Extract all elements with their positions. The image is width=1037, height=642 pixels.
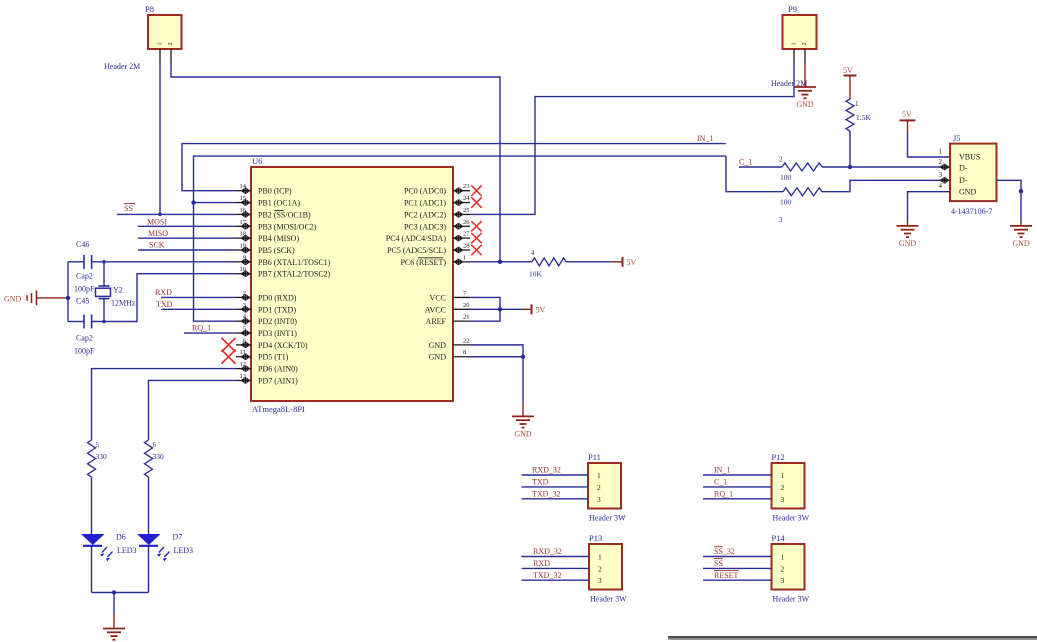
wire IN_1 to PB0: [182, 144, 726, 191]
wire net IN_1 to P12 pin 1: [703, 474, 772, 476]
resistor R4 10K: [532, 258, 566, 266]
svg-text:27: 27: [463, 231, 470, 238]
svg-text:PC2 (ADC2): PC2 (ADC2): [404, 210, 446, 219]
svg-text:4-1437106-7: 4-1437106-7: [951, 207, 992, 216]
svg-text:100: 100: [780, 198, 792, 207]
resistor R5 330: [88, 440, 96, 477]
wire J5 shield to ground: [997, 180, 1022, 222]
wire net TXD_32 to P11 pin 3: [522, 498, 589, 500]
wire LED D6 to gnd rail: [91, 546, 93, 593]
wire R1 down to D- net: [849, 131, 851, 167]
svg-text:GND: GND: [899, 239, 917, 248]
svg-text:17: 17: [240, 219, 247, 226]
svg-text:TXD_32: TXD_32: [532, 490, 560, 499]
U6 pin 12 PD6: [236, 368, 251, 370]
svg-text:Header 3W: Header 3W: [773, 595, 810, 604]
sheet border: [668, 636, 1037, 638]
connector P9: [783, 15, 817, 49]
J5 pin2 io glyph: [940, 164, 950, 169]
svg-text:RXD: RXD: [155, 288, 172, 297]
junction crystal gnd: [66, 296, 70, 300]
svg-text:IN_1: IN_1: [697, 134, 713, 143]
U6 pin 14 PB0: [236, 190, 251, 192]
U6 pin 9 PB6: [236, 261, 251, 263]
svg-text:100: 100: [780, 173, 792, 182]
svg-text:Cap2: Cap2: [76, 334, 93, 343]
wire net SS to PB2: [117, 213, 236, 215]
svg-text:5V: 5V: [843, 66, 853, 75]
connector P14 body: [772, 544, 805, 590]
svg-text:GND: GND: [429, 341, 447, 350]
wire VCC AREF tie: [470, 297, 500, 321]
svg-text:8: 8: [463, 349, 466, 356]
svg-text:5V: 5V: [536, 305, 546, 314]
wire net RXD_32 to P13 pin 1: [522, 556, 590, 558]
svg-text:C46: C46: [76, 240, 89, 249]
svg-text:RQ_1: RQ_1: [714, 490, 733, 499]
ground GND under U6: [512, 415, 534, 417]
U6 pin 21 AREF right: [453, 320, 470, 322]
svg-text:330: 330: [153, 452, 165, 461]
svg-text:GND: GND: [1012, 239, 1030, 248]
svg-text:SCK: SCK: [149, 241, 165, 250]
svg-text:12MHz: 12MHz: [111, 299, 136, 308]
svg-text:C45: C45: [76, 297, 89, 306]
svg-text:1.5K: 1.5K: [856, 113, 871, 122]
svg-text:20: 20: [463, 302, 470, 309]
wire R2 to J5 pin2: [822, 166, 950, 168]
svg-text:PB3 (MOSI/OC2): PB3 (MOSI/OC2): [258, 222, 317, 231]
svg-text:3: 3: [243, 302, 246, 309]
svg-text:5V: 5V: [902, 110, 912, 119]
svg-text:TXD: TXD: [532, 478, 549, 487]
junction on PC6 reset: [498, 260, 502, 264]
svg-text:1: 1: [598, 553, 602, 562]
no-connect X on pin 11 PD5: [222, 350, 236, 364]
svg-text:GND: GND: [959, 188, 977, 197]
svg-text:RXD_32: RXD_32: [533, 547, 562, 556]
svg-text:LED3: LED3: [117, 546, 137, 555]
svg-text:MISO: MISO: [148, 229, 168, 238]
svg-text:RQ_1: RQ_1: [192, 324, 211, 333]
svg-text:4: 4: [939, 182, 943, 190]
svg-text:P12: P12: [772, 452, 785, 462]
U6 pin 25 PC2 right: [453, 213, 470, 215]
junction D- net: [848, 165, 852, 169]
connector P8: [148, 15, 182, 49]
U6 pin 24 PC1 right: [453, 202, 470, 204]
svg-text:Header 3W: Header 3W: [589, 514, 626, 523]
resistor R1 1.5K: [846, 99, 854, 131]
wire net TXD to PD1: [161, 308, 236, 310]
wire R3 to J5 pin3: [822, 180, 950, 191]
wire PD7 to resistor R6: [149, 380, 237, 440]
resistor R3 100: [783, 188, 822, 196]
wire C46 to PB6 XTAL1: [92, 261, 236, 263]
op IC U6 ATmega8L body: [251, 167, 453, 401]
svg-text:3: 3: [781, 495, 785, 504]
U6 pin 20 AVCC right: [453, 308, 470, 310]
svg-text:TXD: TXD: [156, 300, 173, 309]
wire net RXD_32 to P11 pin 1: [522, 474, 589, 476]
ground GND under P9: [794, 86, 816, 88]
ground under LEDs: [103, 628, 125, 630]
svg-text:1: 1: [597, 471, 601, 480]
junction shield: [1019, 189, 1023, 193]
svg-text:2: 2: [802, 43, 808, 46]
svg-text:2: 2: [781, 564, 785, 573]
svg-text:1: 1: [463, 254, 466, 261]
svg-text:3: 3: [598, 576, 602, 585]
svg-text:3: 3: [781, 576, 785, 585]
svg-text:1: 1: [855, 100, 859, 108]
svg-text:PD3 (INT1): PD3 (INT1): [258, 329, 297, 338]
svg-text:D-: D-: [959, 176, 968, 185]
wire net SCK to PB5: [138, 249, 236, 251]
no-connect X on pin 27: [471, 233, 481, 243]
svg-text:PD4 (XCK/T0): PD4 (XCK/T0): [258, 341, 308, 350]
wire R4 to 5V: [566, 261, 612, 263]
svg-text:1: 1: [939, 148, 943, 156]
svg-text:330: 330: [96, 452, 108, 461]
U6 pin 5 PD3: [236, 332, 251, 334]
svg-text:16: 16: [240, 207, 247, 214]
junction AVCC: [498, 307, 502, 311]
U6 pin 7 VCC right: [453, 296, 470, 298]
wire net RQ_1 to PD3: [184, 332, 236, 334]
U6 pin 6 PD4: [236, 344, 251, 346]
svg-text:14: 14: [240, 183, 247, 190]
U6 pin 1 PC6 right: [453, 261, 470, 263]
no-connect X on pin 24: [471, 197, 481, 207]
svg-text:3: 3: [597, 495, 601, 504]
resistor R6 330: [145, 440, 153, 477]
svg-text:1: 1: [781, 471, 785, 480]
wire net SS_32 to P14 pin 1: [703, 556, 772, 558]
svg-text:SS: SS: [124, 204, 133, 213]
U6 pin 3 PD1: [236, 308, 251, 310]
wire down to earth: [113, 593, 115, 615]
wire LED ground rail: [92, 592, 149, 594]
svg-text:2: 2: [243, 290, 246, 297]
P8 pin 2 stub: [170, 49, 172, 63]
svg-text:AVCC: AVCC: [425, 305, 446, 314]
svg-text:PB6 (XTAL1/TOSC1): PB6 (XTAL1/TOSC1): [258, 258, 331, 267]
svg-text:D-: D-: [959, 163, 968, 172]
svg-text:9: 9: [243, 254, 246, 261]
connector P13 body: [589, 544, 622, 590]
svg-text:24: 24: [463, 195, 470, 202]
svg-text:VBUS: VBUS: [959, 153, 980, 162]
svg-text:2: 2: [597, 483, 601, 492]
wire net C_1: [739, 166, 782, 168]
svg-text:2: 2: [598, 564, 602, 573]
wire PB1/PD2 vertical net: [194, 156, 727, 321]
svg-text:2: 2: [168, 43, 174, 46]
svg-text:21: 21: [463, 314, 470, 321]
U6 pin 10 PB7: [236, 273, 251, 275]
U6 pin 8 GND right: [453, 356, 470, 358]
svg-text:Header 3W: Header 3W: [590, 595, 627, 604]
junction LED gnd: [112, 590, 116, 594]
wire net RXD to P13 pin 2: [522, 567, 590, 569]
svg-text:22: 22: [463, 337, 470, 344]
svg-text:RXD: RXD: [533, 559, 550, 568]
wire AVCC to 5V: [470, 308, 523, 310]
U6 pin 26 PC3 right: [453, 225, 470, 227]
U6 pin 13 PD7: [236, 379, 251, 381]
wire net C_1 to P12 pin 2: [703, 486, 772, 488]
svg-text:RESET: RESET: [714, 571, 739, 580]
svg-text:1: 1: [781, 553, 785, 562]
wire P9 pin2 to ground: [804, 63, 806, 86]
ground GND right of J5: [1010, 225, 1032, 227]
svg-text:PC3 (ADC3): PC3 (ADC3): [404, 222, 446, 231]
svg-text:19: 19: [240, 243, 247, 250]
svg-text:PB4 (MISO): PB4 (MISO): [258, 234, 299, 243]
no-connect X on pin 28: [471, 245, 481, 255]
svg-text:PC1 (ADC1): PC1 (ADC1): [404, 199, 446, 208]
U6 pin 23 PC0 right: [453, 190, 470, 192]
svg-text:TXD_32: TXD_32: [533, 571, 561, 580]
junction PB1: [191, 200, 195, 204]
svg-text:Y2: Y2: [113, 286, 123, 295]
wire GND pin8: [470, 356, 523, 358]
svg-text:SS_32: SS_32: [714, 547, 735, 556]
svg-text:D6: D6: [116, 533, 126, 542]
svg-text:11: 11: [240, 349, 246, 356]
wire PB1 branch: [194, 202, 237, 204]
U6 pin 16 PB2: [236, 213, 251, 215]
svg-text:ATmega8L-8PI: ATmega8L-8PI: [252, 404, 305, 414]
wire net RQ_1 to P12 pin 3: [703, 498, 772, 500]
svg-text:GND: GND: [4, 295, 22, 304]
no-connect X on pin 26: [471, 221, 481, 231]
svg-text:RXD_32: RXD_32: [532, 466, 561, 475]
svg-text:J5: J5: [953, 133, 961, 143]
wire PD6 to resistor R5: [92, 369, 237, 440]
U6 pin 15 PB1: [236, 202, 251, 204]
connector J5 body: [950, 144, 997, 202]
svg-text:PD6 (AIN0): PD6 (AIN0): [258, 365, 298, 374]
svg-text:18: 18: [240, 231, 247, 238]
svg-text:15: 15: [240, 195, 247, 202]
svg-text:Cap2: Cap2: [76, 272, 93, 281]
svg-text:PB2 (SS/OC1B): PB2 (SS/OC1B): [258, 210, 311, 219]
svg-text:P13: P13: [589, 533, 602, 543]
svg-text:PC5 (ADC5/SCL): PC5 (ADC5/SCL): [387, 246, 446, 255]
svg-text:4: 4: [531, 249, 535, 257]
wire PC6 to resistor R4: [470, 261, 532, 263]
wire net TXD to P11 pin 2: [522, 486, 589, 488]
svg-text:10K: 10K: [529, 270, 543, 279]
wire gnd down: [522, 357, 524, 403]
wire C45 to PB7 XTAL2: [92, 274, 236, 322]
svg-text:PB5 (SCK): PB5 (SCK): [258, 246, 295, 255]
svg-text:VCC: VCC: [430, 293, 446, 302]
U6 pin 28 PC5 right: [453, 249, 470, 251]
svg-text:LED3: LED3: [174, 546, 194, 555]
svg-text:GND: GND: [796, 100, 814, 109]
wire GND pin22: [470, 345, 523, 357]
no-connect X on pin 6 PD4: [222, 338, 236, 352]
wire 5V to J5 pin1: [908, 132, 951, 157]
U6 pin 11 PD5: [236, 356, 251, 358]
svg-text:13: 13: [240, 373, 247, 380]
svg-text:1: 1: [792, 43, 798, 46]
svg-text:2: 2: [939, 158, 943, 166]
LED D7: [137, 534, 161, 545]
svg-text:IN_1: IN_1: [714, 466, 730, 475]
svg-text:5V: 5V: [627, 258, 637, 267]
connector P11 body: [588, 463, 621, 509]
capacitor C46: [68, 261, 84, 263]
svg-text:C_1: C_1: [739, 158, 752, 167]
wire net TXD_32 to P13 pin 3: [522, 579, 590, 581]
crystal Y2: [103, 262, 105, 286]
U6 pin 17 PB3: [236, 225, 251, 227]
svg-text:PB7 (XTAL2/TOSC2): PB7 (XTAL2/TOSC2): [258, 270, 331, 279]
svg-text:PD7 (AIN1): PD7 (AIN1): [258, 376, 298, 385]
junction gnd pins: [521, 355, 525, 359]
resistor R2 100: [782, 163, 822, 171]
P8 pin 1 stub: [159, 49, 161, 63]
U6 pin 18 PB4: [236, 237, 251, 239]
wire P8 pin1 to SS net: [159, 63, 161, 214]
svg-text:GND: GND: [429, 353, 447, 362]
svg-text:5: 5: [96, 441, 100, 449]
svg-text:P14: P14: [772, 533, 786, 543]
power 5V AVCC: [531, 304, 533, 314]
svg-text:25: 25: [463, 207, 470, 214]
J5 pin3 io glyph: [940, 178, 950, 183]
svg-text:28: 28: [463, 243, 470, 250]
wire R6 to LED D7: [148, 477, 150, 534]
svg-text:5: 5: [243, 326, 246, 333]
svg-text:U6: U6: [252, 156, 262, 166]
wire P9 pin1 to PC2: [470, 63, 794, 214]
U6 pin 4 PD2: [236, 320, 251, 322]
wire J5 pin4 to ground: [908, 192, 951, 223]
svg-text:PC4 (ADC4/SDA): PC4 (ADC4/SDA): [386, 234, 447, 243]
wire net MISO to PB4: [138, 237, 236, 239]
wire net MOSI to PB3: [138, 225, 236, 227]
svg-text:P11: P11: [588, 452, 601, 462]
svg-text:C_1: C_1: [714, 478, 727, 487]
svg-text:PD2 (INT0): PD2 (INT0): [258, 317, 297, 326]
svg-text:1: 1: [158, 43, 164, 46]
svg-text:PC6 (RESET): PC6 (RESET): [400, 258, 446, 267]
svg-text:3: 3: [779, 216, 783, 224]
wire net RESET to P14 pin 3: [703, 579, 772, 581]
svg-text:SS: SS: [714, 559, 723, 568]
svg-text:Header 3W: Header 3W: [773, 514, 810, 523]
capacitor C45: [68, 321, 84, 323]
svg-text:26: 26: [463, 219, 470, 226]
svg-text:AREF: AREF: [426, 317, 447, 326]
svg-text:MOSI: MOSI: [147, 218, 167, 227]
svg-text:100pF: 100pF: [74, 347, 95, 356]
power 5V reset pullup: [622, 257, 624, 267]
U6 pin 2 PD0: [236, 296, 251, 298]
wire P8 pin2 reset line: [171, 63, 500, 262]
svg-text:P8: P8: [145, 4, 154, 14]
wire down to resistor 3: [726, 156, 783, 192]
U6 pin 19 PB5: [236, 249, 251, 251]
U6 pin 22 GND right: [453, 344, 470, 346]
wire R5 to LED D6: [91, 477, 93, 534]
svg-text:PD5 (T1): PD5 (T1): [258, 353, 289, 362]
svg-text:P9: P9: [788, 4, 797, 14]
wire LED D7 to gnd rail: [148, 546, 150, 593]
svg-text:PC0 (ADC0): PC0 (ADC0): [404, 187, 446, 196]
svg-text:3: 3: [939, 171, 943, 179]
svg-text:Header 2M: Header 2M: [104, 62, 140, 71]
svg-text:PB0 (ICP): PB0 (ICP): [258, 187, 292, 196]
wire crystal left vertical: [67, 262, 69, 322]
no-connect X on pin 23: [471, 186, 481, 196]
svg-text:10: 10: [240, 266, 247, 273]
wire net RXD to PD0: [161, 296, 236, 298]
svg-text:23: 23: [463, 183, 470, 190]
P9 pin 2 stub: [804, 49, 806, 63]
svg-text:PB1 (OC1A): PB1 (OC1A): [258, 199, 300, 208]
svg-text:GND: GND: [514, 429, 532, 438]
connector P12 body: [772, 463, 805, 509]
U6 pin 27 PC4 right: [453, 237, 470, 239]
svg-text:100pF: 100pF: [74, 285, 95, 294]
svg-text:2: 2: [781, 483, 785, 492]
P9 pin 1 stub: [793, 49, 795, 63]
svg-text:PD0 (RXD): PD0 (RXD): [258, 293, 297, 302]
svg-text:6: 6: [153, 441, 157, 449]
svg-text:D7: D7: [173, 533, 183, 542]
svg-text:2: 2: [779, 156, 783, 164]
ground GND under J5: [897, 225, 919, 227]
wire net SS to P14 pin 2: [703, 567, 772, 569]
svg-text:12: 12: [240, 361, 247, 368]
svg-text:PD1 (TXD): PD1 (TXD): [258, 305, 296, 314]
LED D6: [81, 534, 105, 545]
